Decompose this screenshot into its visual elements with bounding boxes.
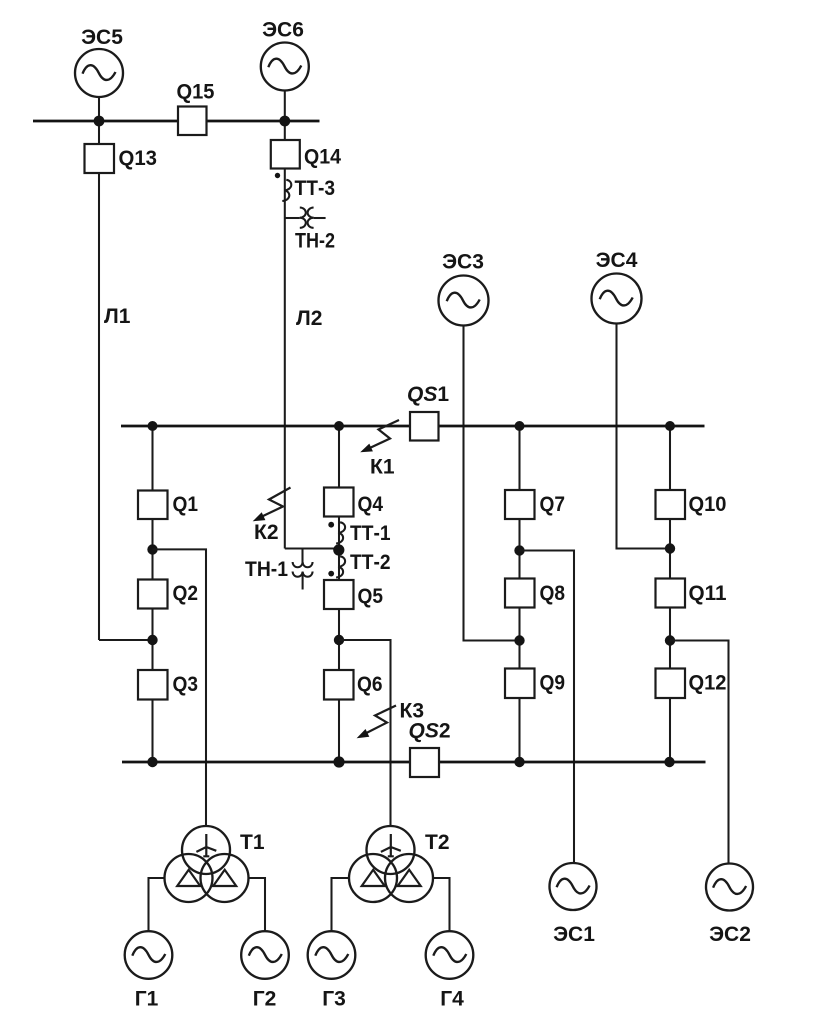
- breaker Q3: [138, 670, 168, 700]
- svg-text:ТТ-2: ТТ-2: [350, 551, 391, 574]
- column 2 wire (Q4-Q5-Q6): [338, 426, 340, 762]
- column 4 wire (Q10-Q11-Q12): [669, 426, 671, 762]
- svg-text:К2: К2: [254, 521, 279, 544]
- svg-text:Л1: Л1: [104, 305, 131, 328]
- VT ТН-2 lead right: [314, 217, 326, 219]
- svg-text:Л2: Л2: [296, 307, 322, 330]
- svg-text:Q14: Q14: [304, 146, 341, 169]
- svg-text:Т2: Т2: [425, 831, 450, 854]
- T1 delta left: [177, 870, 200, 886]
- generator ЭС3: [439, 276, 489, 326]
- breaker Q6: [324, 670, 354, 700]
- disconnector QS1: [410, 412, 439, 441]
- svg-text:ЭС5: ЭС5: [81, 26, 123, 49]
- T2 wye symbol: [381, 834, 401, 857]
- svg-text:QS2: QS2: [409, 720, 451, 743]
- wire T1 feed: node right then down across bus B: [153, 549, 207, 826]
- svg-text:Q8: Q8: [540, 582, 566, 605]
- svg-text:Г1: Г1: [135, 988, 159, 1011]
- breaker Q14: [271, 140, 300, 169]
- T2 delta left: [362, 870, 385, 886]
- generator Г3: [308, 931, 356, 979]
- svg-text:Q2: Q2: [173, 582, 199, 605]
- wire ЭС2 feed: node right then down: [670, 641, 729, 864]
- generator ЭС6: [261, 43, 309, 91]
- CT ТТ-1 winding: [336, 522, 345, 543]
- CT ТТ-2 polarity dot: [328, 571, 334, 577]
- wire ЭС3 drop across bus A to Q8-Q9 node: [464, 325, 520, 640]
- breaker Q2: [138, 580, 168, 609]
- CT ТТ-3 winding: [282, 180, 291, 201]
- bus A (upper main busbar): [121, 425, 705, 428]
- breaker Q5: [324, 580, 354, 609]
- breaker Q13: [85, 144, 115, 173]
- node bus A col1: [148, 421, 158, 431]
- node ТТ junction (big): [333, 544, 344, 555]
- transformer T2 windings (3 circles): [349, 826, 433, 902]
- svg-text:Q5: Q5: [358, 585, 384, 608]
- column 1 wire (Q1-Q2-Q3): [151, 426, 153, 762]
- svg-text:ЭС4: ЭС4: [596, 249, 638, 272]
- fault К2 arrow: [263, 488, 291, 517]
- wire ЭС6 drop through Q14, line Л2 vertical: [284, 91, 286, 549]
- svg-text:Q4: Q4: [358, 493, 384, 516]
- node bus B col1: [147, 757, 157, 767]
- breaker Q1: [138, 491, 168, 520]
- generator ЭС4: [592, 274, 642, 324]
- svg-text:Q11: Q11: [689, 582, 727, 605]
- svg-text:Q10: Q10: [689, 493, 727, 516]
- VT ТН-1 secondary winding and tail: [293, 572, 313, 590]
- column 3 wire (Q7-Q8-Q9): [518, 426, 520, 762]
- node bus A col3: [515, 421, 525, 431]
- node Q10-Q11 (ЭС4 joins): [665, 543, 675, 553]
- wire ЭС4 drop across bus A to Q10-Q11 node: [617, 323, 671, 549]
- wire Л1 horizontal into Q2-Q3 node: [99, 639, 153, 641]
- svg-text:ТН-2: ТН-2: [295, 230, 335, 253]
- VT ТН-2 primary winding: [300, 208, 306, 228]
- VT ТН-2 tap lead left: [285, 217, 300, 219]
- transformer T1 windings (3 circles): [165, 826, 249, 902]
- node at ЭС6 bus: [279, 116, 290, 127]
- svg-text:Q12: Q12: [689, 672, 727, 695]
- svg-text:ТН-1: ТН-1: [245, 558, 288, 581]
- svg-text:Т1: Т1: [240, 831, 265, 854]
- wire T2 right lead to Г4: [433, 878, 450, 932]
- svg-text:ЭС3: ЭС3: [442, 251, 484, 274]
- wire T2 left lead to Г3: [332, 878, 350, 932]
- node bus B col2: [333, 756, 344, 767]
- svg-text:Q13: Q13: [119, 147, 158, 170]
- node bus A col4: [665, 421, 675, 431]
- T2 delta right: [398, 870, 421, 886]
- bus top-left (110kV): [33, 120, 320, 123]
- svg-text:Q9: Q9: [540, 672, 566, 695]
- node Q1-Q2: [147, 544, 157, 554]
- svg-text:ТТ-1: ТТ-1: [350, 522, 391, 545]
- VT ТН-1 stub: [301, 549, 303, 563]
- wire ЭС5 drop to Q13 and line Л1 vertical: [98, 97, 100, 640]
- T1 delta right: [213, 870, 236, 886]
- node bus B col4: [664, 757, 674, 767]
- node bus B col3: [514, 757, 524, 767]
- breaker Q9: [505, 669, 535, 699]
- wire Л2 horizontal into ТТ node: [285, 547, 339, 549]
- svg-text:ЭС2: ЭС2: [709, 923, 751, 946]
- bus B (lower main busbar): [122, 761, 706, 764]
- svg-text:Q7: Q7: [540, 493, 566, 516]
- svg-text:Q3: Q3: [173, 673, 199, 696]
- svg-text:К3: К3: [400, 700, 425, 723]
- svg-text:Q1: Q1: [173, 493, 199, 516]
- breaker Q7: [505, 490, 535, 519]
- fault К3 arrow: [366, 706, 396, 734]
- CT ТТ-2 winding: [336, 556, 345, 577]
- breaker Q8: [505, 579, 535, 608]
- wire T2 feed: node right then down across bus B: [339, 640, 391, 827]
- node bus A col2: [334, 421, 344, 431]
- fault К1 arrow: [370, 420, 399, 448]
- breaker Q15: [178, 107, 207, 136]
- node Q8-Q9 (ЭС3 joins): [514, 635, 524, 645]
- breaker Q4: [324, 488, 354, 517]
- svg-text:Q15: Q15: [177, 81, 215, 104]
- node Q5-Q6: [334, 635, 344, 645]
- svg-text:Г4: Г4: [440, 988, 464, 1011]
- svg-text:Г2: Г2: [253, 988, 277, 1011]
- VT ТН-2 secondary winding: [308, 208, 314, 228]
- svg-text:QS1: QS1: [407, 383, 449, 406]
- CT ТТ-3 polarity dot: [275, 173, 280, 178]
- generator Г2: [241, 931, 289, 979]
- breaker Q11: [656, 579, 686, 608]
- wire T1 right lead to Г2: [249, 878, 266, 932]
- wire ЭС1 feed: node right then down across bus B: [520, 551, 575, 864]
- CT ТТ-1 polarity dot: [328, 522, 334, 528]
- breaker Q12: [656, 669, 686, 699]
- VT ТН-1 primary winding: [293, 562, 313, 567]
- node Q11-Q12: [665, 635, 675, 645]
- svg-text:ЭС6: ЭС6: [262, 19, 304, 42]
- svg-text:ЭС1: ЭС1: [553, 923, 595, 946]
- disconnector QS2: [410, 748, 439, 777]
- node at ЭС5 bus: [94, 116, 105, 127]
- node Q2-Q3 (Л1 joins): [147, 635, 157, 645]
- T1 wye symbol: [196, 834, 216, 857]
- wire T1 left lead to Г1: [149, 878, 165, 932]
- svg-text:К1: К1: [370, 456, 395, 479]
- svg-text:ТТ-3: ТТ-3: [295, 177, 336, 200]
- node Q7-Q8: [514, 545, 524, 555]
- generator ЭС1: [550, 863, 597, 910]
- svg-text:Q6: Q6: [357, 673, 383, 696]
- generator Г1: [125, 931, 173, 979]
- breaker Q10: [656, 490, 686, 519]
- generator Г4: [426, 931, 474, 979]
- svg-text:Г3: Г3: [322, 988, 346, 1011]
- generator ЭС2: [706, 864, 753, 911]
- generator ЭС5: [75, 49, 123, 97]
